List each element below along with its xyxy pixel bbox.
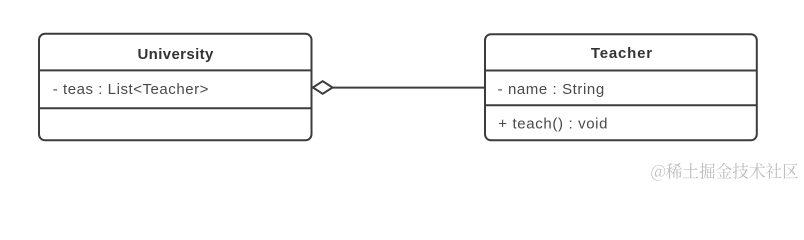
class University box (39, 34, 312, 141)
University title/attribute divider (38, 69, 312, 71)
University attribute: - teas : List&lt;Teacher&gt; (53, 81, 209, 98)
University attribute/method divider (38, 107, 312, 109)
Teacher attribute: - name : String (498, 81, 605, 98)
class Teacher box (485, 34, 757, 140)
svg-text:Teacher: Teacher (591, 45, 652, 62)
Teacher class name label (591, 45, 652, 62)
Teacher title/attribute divider (484, 70, 757, 72)
svg-text:- name : String: - name : String (498, 81, 605, 98)
aggregation association wire University-Teacher (331, 87, 485, 89)
Teacher method: + teach() : void (498, 115, 607, 132)
svg-text:University: University (137, 46, 214, 63)
svg-text:+ teach() : void: + teach() : void (498, 115, 607, 132)
aggregation diamond at University end (313, 81, 333, 94)
Teacher attribute/method divider (484, 104, 757, 106)
watermark @稀土掘金技术社区 (651, 163, 798, 181)
svg-text:- teas : List<Teacher>: - teas : List<Teacher> (53, 81, 209, 98)
University class name label (137, 46, 214, 63)
